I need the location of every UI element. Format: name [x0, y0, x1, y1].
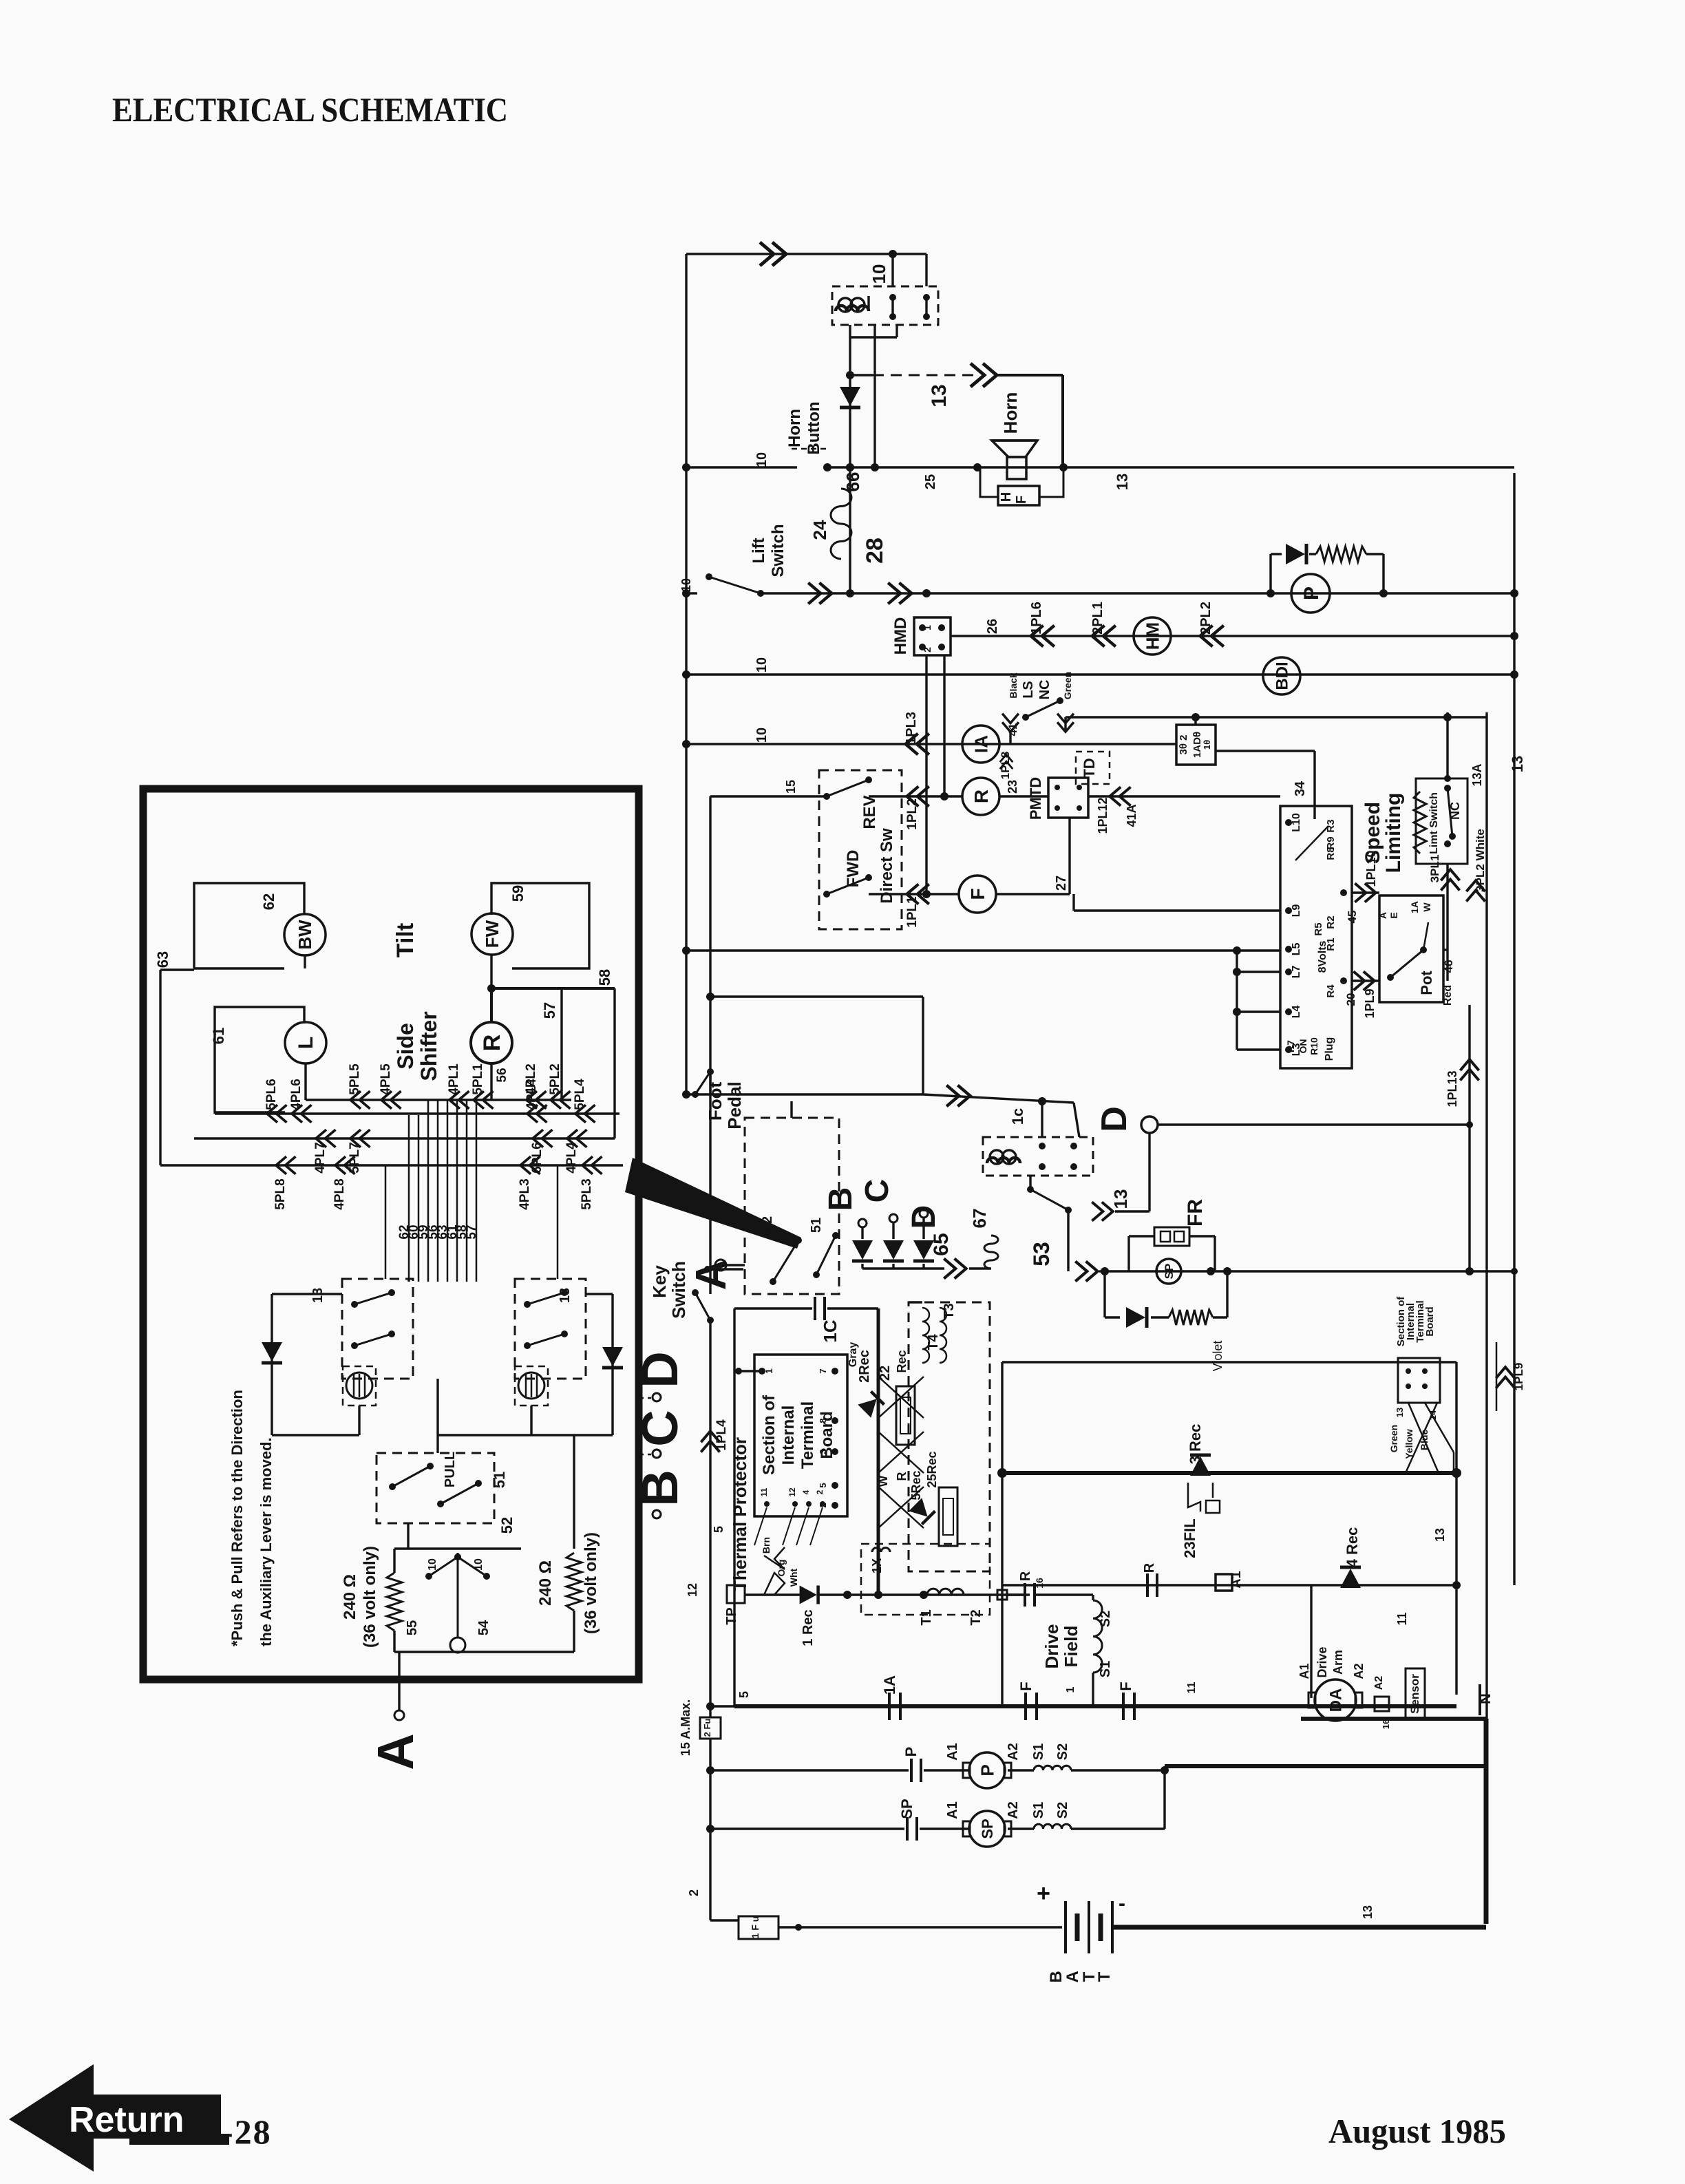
svg-text:Plug: Plug [1324, 1037, 1335, 1061]
svg-text:8Volts: 8Volts [1317, 940, 1328, 973]
svg-text:15: 15 [784, 780, 798, 794]
svg-text:5PL1: 5PL1 [471, 1063, 485, 1095]
svg-text:20: 20 [1344, 993, 1357, 1006]
svg-text:C: C [859, 1179, 896, 1203]
svg-text:the Auxiliary Lever is moved.: the Auxiliary Lever is moved. [257, 1437, 275, 1646]
svg-text:5PL5: 5PL5 [348, 1063, 362, 1095]
svg-text:Field: Field [1061, 1626, 1081, 1668]
svg-text:5: 5 [712, 1526, 725, 1533]
svg-text:59: 59 [509, 885, 527, 902]
svg-text:Sensor: Sensor [1408, 1674, 1421, 1714]
svg-text:26: 26 [985, 619, 1000, 634]
svg-text:A1: A1 [945, 1743, 960, 1761]
svg-text:L7: L7 [1291, 966, 1302, 979]
svg-text:10: 10 [754, 728, 770, 743]
svg-text:ELECTRICAL SCHEMATIC: ELECTRICAL SCHEMATIC [112, 90, 508, 129]
svg-text:Pedal: Pedal [724, 1081, 745, 1129]
svg-text:15 A.Max.: 15 A.Max. [679, 1699, 692, 1756]
svg-text:Gray: Gray [847, 1342, 859, 1368]
svg-text:240 Ω: 240 Ω [536, 1560, 555, 1606]
svg-text:L: L [295, 1037, 317, 1049]
svg-text:1PL13: 1PL13 [1445, 1070, 1459, 1107]
svg-text:Board: Board [1424, 1306, 1436, 1336]
svg-text:BDI: BDI [1273, 661, 1292, 690]
svg-text:4PL5: 4PL5 [379, 1063, 393, 1095]
svg-text:67: 67 [969, 1209, 990, 1229]
svg-text:65: 65 [930, 1233, 953, 1255]
svg-text:Section of: Section of [760, 1395, 778, 1475]
svg-text:13: 13 [1433, 1528, 1447, 1542]
svg-text:10: 10 [869, 264, 889, 284]
svg-text:1PL3: 1PL3 [904, 712, 919, 745]
svg-text:HM: HM [1142, 622, 1163, 650]
svg-text:ON: ON [1297, 1039, 1308, 1054]
svg-text:Key: Key [649, 1265, 670, 1298]
svg-text:A2: A2 [1373, 1676, 1385, 1690]
svg-text:24: 24 [809, 520, 830, 540]
svg-text:Red: Red [1442, 985, 1454, 1006]
svg-text:5PL6: 5PL6 [264, 1079, 279, 1110]
svg-text:25Rec: 25Rec [925, 1451, 939, 1487]
svg-text:41A: 41A [1125, 804, 1138, 827]
svg-text:4PL4: 4PL4 [524, 1079, 539, 1110]
svg-text:N: N [1476, 1693, 1494, 1704]
svg-text:R7: R7 [1285, 1040, 1296, 1052]
svg-text:(36 volt only): (36 volt only) [582, 1532, 600, 1634]
svg-text:34: 34 [1293, 781, 1308, 796]
svg-text:Horn: Horn [785, 409, 804, 447]
svg-text:SP: SP [979, 1819, 996, 1838]
svg-text:2: 2 [815, 1489, 825, 1494]
svg-text:2: 2 [922, 647, 933, 653]
svg-text:4PL6: 4PL6 [289, 1079, 304, 1110]
svg-text:66: 66 [842, 472, 863, 492]
svg-text:BW: BW [295, 920, 315, 950]
svg-text:13: 13 [1114, 474, 1131, 490]
svg-text:5PL2: 5PL2 [548, 1063, 562, 1094]
svg-text:1 F u: 1 F u [750, 1916, 761, 1939]
svg-text:S2: S2 [1055, 1802, 1070, 1819]
svg-text:F: F [1014, 496, 1029, 504]
svg-text:T: T [1095, 1971, 1114, 1982]
svg-text:S1: S1 [1031, 1743, 1046, 1760]
svg-text:-28: -28 [222, 2112, 272, 2151]
svg-text:T1: T1 [919, 1609, 934, 1625]
svg-text:S2: S2 [1098, 1611, 1113, 1627]
svg-text:R: R [895, 1472, 909, 1481]
svg-text:3 Rec: 3 Rec [1187, 1424, 1204, 1465]
svg-text:13: 13 [1395, 1408, 1405, 1417]
svg-text:Direct Sw: Direct Sw [878, 828, 896, 904]
svg-text:1PL9: 1PL9 [1512, 1363, 1525, 1391]
svg-text:Org: Org [776, 1560, 787, 1577]
svg-text:5PL3: 5PL3 [580, 1178, 594, 1209]
svg-text:63: 63 [154, 951, 171, 968]
svg-text:L9: L9 [1291, 904, 1302, 918]
svg-text:1PL9: 1PL9 [1363, 988, 1377, 1018]
svg-text:Violet: Violet [1211, 1341, 1225, 1372]
svg-text:8: 8 [818, 1418, 828, 1423]
svg-text:FWD: FWD [844, 850, 862, 888]
svg-text:B: B [631, 1470, 688, 1506]
svg-text:12: 12 [686, 1583, 699, 1597]
svg-text:L5: L5 [1291, 943, 1302, 956]
svg-text:13: 13 [1361, 1905, 1375, 1919]
svg-text:T4: T4 [926, 1333, 941, 1350]
svg-text:Green: Green [1062, 672, 1073, 699]
svg-text:Button: Button [805, 401, 823, 454]
svg-text:1C: 1C [820, 1319, 840, 1342]
svg-text:3: 3 [818, 1449, 828, 1454]
svg-text:22: 22 [878, 1366, 893, 1381]
svg-text:REV: REV [860, 795, 879, 829]
svg-text:R: R [479, 1035, 505, 1052]
svg-text:58: 58 [596, 969, 613, 986]
svg-text:12: 12 [787, 1487, 797, 1497]
svg-text:A: A [367, 1733, 424, 1770]
svg-text:A2: A2 [1006, 1743, 1021, 1761]
svg-text:4PL8: 4PL8 [332, 1178, 347, 1209]
svg-text:1: 1 [922, 625, 933, 630]
svg-text:Wht: Wht [788, 1568, 799, 1587]
svg-text:R2: R2 [1325, 915, 1337, 929]
svg-text:55: 55 [405, 1620, 420, 1635]
svg-text:F: F [967, 888, 988, 900]
svg-text:Tilt: Tilt [392, 923, 418, 957]
svg-text:T2: T2 [968, 1609, 984, 1625]
svg-text:H: H [999, 492, 1014, 502]
svg-text:A1: A1 [945, 1801, 960, 1819]
svg-text:HMD: HMD [891, 617, 910, 655]
svg-text:Switch: Switch [769, 524, 787, 577]
svg-text:TD: TD [1081, 758, 1098, 778]
svg-text:1PL4: 1PL4 [714, 1419, 729, 1451]
svg-text:57: 57 [465, 1224, 479, 1239]
svg-text:51: 51 [809, 1218, 824, 1233]
svg-text:T3: T3 [942, 1303, 957, 1319]
svg-text:52: 52 [498, 1517, 516, 1534]
svg-text:23: 23 [1006, 780, 1019, 794]
svg-text:A2: A2 [1352, 1663, 1366, 1679]
svg-text:1θ: 1θ [1202, 740, 1212, 750]
svg-text:10: 10 [679, 578, 693, 592]
svg-text:28: 28 [862, 538, 888, 564]
svg-text:R5: R5 [1313, 922, 1324, 935]
svg-text:11: 11 [1186, 1682, 1198, 1693]
svg-text:D: D [631, 1351, 688, 1388]
svg-text:1: 1 [763, 1368, 774, 1374]
svg-text:5PL8: 5PL8 [273, 1178, 288, 1209]
svg-text:41: 41 [1006, 723, 1019, 736]
svg-text:52: 52 [760, 1216, 775, 1231]
svg-text:45: 45 [1346, 911, 1359, 924]
svg-text:Black: Black [1008, 672, 1019, 699]
svg-text:R: R [1142, 1562, 1157, 1573]
svg-text:F: F [1017, 1682, 1035, 1690]
svg-text:23FIL: 23FIL [1181, 1518, 1198, 1558]
svg-text:R3: R3 [1325, 819, 1337, 832]
svg-text:1PL6: 1PL6 [1029, 602, 1044, 635]
svg-text:A: A [1377, 912, 1388, 919]
svg-text:Limt Switch: Limt Switch [1428, 792, 1440, 854]
svg-text:Thermal Protector: Thermal Protector [730, 1437, 750, 1591]
svg-text:54: 54 [476, 1620, 491, 1635]
svg-text:53: 53 [1029, 1242, 1054, 1266]
svg-text:P: P [1300, 586, 1323, 600]
svg-text:1A: 1A [881, 1675, 898, 1695]
svg-text:10: 10 [427, 1558, 438, 1571]
svg-text:B: B [823, 1187, 859, 1211]
svg-text:10: 10 [473, 1558, 485, 1571]
svg-text:4PL7: 4PL7 [313, 1142, 328, 1173]
svg-text:R: R [971, 789, 992, 803]
svg-text:*Push & Pull Refers to the Di: *Push & Pull Refers to the Direction [229, 1390, 246, 1646]
svg-text:L4: L4 [1291, 1006, 1302, 1019]
svg-text:5: 5 [737, 1691, 751, 1698]
svg-text:2PL2: 2PL2 [1198, 602, 1214, 635]
svg-text:Rec: Rec [895, 1350, 909, 1372]
svg-text:R10: R10 [1308, 1037, 1320, 1055]
svg-text:FR: FR [1184, 1199, 1207, 1227]
svg-text:Pot: Pot [1418, 971, 1435, 995]
svg-text:+: + [1037, 1880, 1050, 1907]
svg-text:-: - [1119, 1892, 1125, 1915]
svg-text:A2: A2 [1006, 1801, 1021, 1819]
svg-text:1: 1 [1065, 1686, 1077, 1693]
svg-text:A: A [1063, 1971, 1082, 1982]
svg-text:Drive: Drive [1315, 1646, 1329, 1677]
svg-text:A1: A1 [1229, 1571, 1244, 1589]
svg-text:W: W [1421, 902, 1432, 912]
svg-text:PMTD: PMTD [1027, 777, 1044, 820]
svg-text:62: 62 [260, 893, 277, 910]
svg-text:240 Ω: 240 Ω [341, 1574, 359, 1620]
svg-text:R: R [1018, 1571, 1033, 1581]
svg-text:P: P [977, 1764, 997, 1776]
svg-text:PULL: PULL [443, 1452, 458, 1487]
svg-text:Foot: Foot [705, 1082, 725, 1121]
svg-text:R4: R4 [1325, 984, 1337, 998]
svg-text:16: 16 [1381, 1719, 1391, 1729]
svg-text:4PL1: 4PL1 [447, 1063, 461, 1095]
svg-text:Green: Green [1388, 1425, 1399, 1452]
svg-text:2PL1: 2PL1 [1090, 602, 1105, 635]
svg-text:Brn: Brn [761, 1537, 772, 1554]
svg-text:E: E [1388, 912, 1399, 918]
svg-text:13A: 13A [1470, 763, 1484, 786]
svg-text:10: 10 [754, 657, 770, 672]
svg-text:11: 11 [1395, 1612, 1409, 1625]
svg-text:Limiting: Limiting [1382, 793, 1405, 873]
svg-text:3PL2 White: 3PL2 White [1474, 829, 1487, 892]
svg-text:C: C [631, 1410, 688, 1446]
svg-text:Side: Side [393, 1023, 418, 1070]
svg-text:S1: S1 [1098, 1661, 1113, 1677]
svg-text:2 Fu: 2 Fu [702, 1719, 712, 1737]
svg-text:Switch: Switch [668, 1261, 689, 1319]
svg-text:SP: SP [898, 1799, 915, 1819]
svg-text:FW: FW [482, 920, 502, 948]
svg-text:13: 13 [1110, 1189, 1131, 1209]
svg-text:IA: IA [971, 735, 991, 753]
svg-text:Arm: Arm [1331, 1650, 1345, 1675]
svg-text:1PL1: 1PL1 [905, 896, 920, 928]
svg-text:13: 13 [1509, 756, 1526, 772]
svg-text:SP: SP [1163, 1264, 1176, 1280]
svg-text:(36 volt only): (36 volt only) [361, 1546, 379, 1648]
svg-text:D: D [1094, 1106, 1134, 1132]
svg-text:4: 4 [801, 1489, 811, 1494]
svg-text:11: 11 [759, 1487, 769, 1496]
svg-text:NC: NC [1448, 802, 1462, 820]
svg-text:Drive: Drive [1041, 1624, 1062, 1668]
svg-text:51: 51 [491, 1472, 508, 1488]
svg-text:Shifter: Shifter [416, 1011, 441, 1081]
svg-text:Terminal: Terminal [798, 1401, 817, 1469]
svg-text:Yellow: Yellow [1403, 1429, 1414, 1459]
svg-text:5Rec: 5Rec [909, 1470, 923, 1500]
svg-text:57: 57 [541, 1002, 558, 1019]
svg-text:S1: S1 [1031, 1802, 1046, 1819]
svg-text:1c: 1c [1009, 1108, 1026, 1125]
svg-text:4 Rec: 4 Rec [1344, 1527, 1361, 1568]
svg-text:4PL3: 4PL3 [518, 1178, 532, 1209]
svg-text:P: P [902, 1747, 920, 1757]
svg-text:F: F [1117, 1682, 1134, 1690]
svg-text:16: 16 [1034, 1578, 1045, 1589]
svg-text:Horn: Horn [1000, 392, 1021, 434]
svg-text:1PL12: 1PL12 [1096, 797, 1110, 834]
svg-text:27: 27 [1054, 876, 1069, 891]
svg-text:L10: L10 [1291, 813, 1302, 832]
svg-text:25: 25 [923, 474, 938, 489]
svg-text:10: 10 [754, 452, 770, 467]
svg-text:7: 7 [818, 1368, 828, 1373]
svg-text:DA: DA [1327, 1688, 1346, 1713]
svg-text:NC: NC [1037, 680, 1052, 700]
svg-text:3θ 2: 3θ 2 [1178, 735, 1189, 755]
svg-text:2Rec: 2Rec [857, 1350, 872, 1383]
svg-text:1PL2: 1PL2 [905, 798, 920, 829]
svg-text:R8: R8 [1325, 847, 1337, 860]
svg-text:TP: TP [724, 1607, 739, 1625]
svg-text:1A: 1A [1409, 901, 1420, 913]
svg-text:4PL4: 4PL4 [564, 1142, 579, 1174]
svg-text:A1: A1 [1297, 1663, 1311, 1679]
svg-text:13: 13 [928, 384, 951, 407]
svg-text:5: 5 [818, 1483, 828, 1487]
svg-text:Lift: Lift [750, 538, 768, 563]
svg-text:August 1985: August 1985 [1328, 2112, 1506, 2150]
svg-text:3PL1: 3PL1 [1428, 855, 1441, 883]
svg-text:1 Rec: 1 Rec [801, 1609, 816, 1646]
svg-text:61: 61 [210, 1028, 227, 1044]
svg-text:56: 56 [495, 1068, 509, 1082]
svg-text:5PL4: 5PL4 [573, 1079, 587, 1110]
svg-text:1X: 1X [870, 1558, 884, 1573]
svg-text:LS: LS [1021, 681, 1036, 699]
svg-text:Internal: Internal [779, 1406, 798, 1465]
svg-text:2: 2 [687, 1889, 701, 1896]
svg-text:13: 13 [310, 1288, 326, 1303]
svg-text:Return: Return [69, 2100, 184, 2140]
svg-text:S2: S2 [1055, 1743, 1070, 1760]
svg-text:W: W [876, 1476, 890, 1487]
svg-text:B: B [1047, 1971, 1066, 1982]
svg-text:Speed: Speed [1361, 802, 1384, 864]
